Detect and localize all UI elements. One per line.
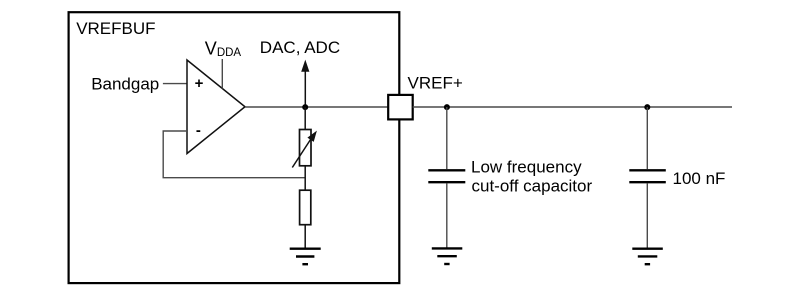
wire op-amp output to VREF+ pin [245,106,388,108]
svg-text:Bandgap: Bandgap [91,74,159,93]
svg-text:DAC, ADC: DAC, ADC [260,38,340,57]
VREF+ label [408,74,463,93]
VDDA label [205,38,242,59]
100 nF label [673,169,726,188]
potentiometer (trimming resistor) [292,130,317,168]
wire potentiometer to resistor [304,166,306,190]
capacitor C2 (100 nF) [629,170,666,182]
op-amp - input label [196,122,201,139]
feedback wire from - input to resistor divider node [163,131,305,178]
wire node to capacitor C1 [446,107,448,169]
wire node to potentiometer [304,107,306,130]
wire capacitor C2 to ground [646,183,648,248]
svg-text:100 nF: 100 nF [673,169,726,188]
wire VDDA to op-amp top [221,59,223,89]
junction node at C2 [644,104,650,110]
VREFBUF label [76,19,155,38]
junction node at C1 [444,104,450,110]
wire Bandgap to op-amp + input [163,83,187,85]
wire resistor to ground [304,225,306,249]
Bandgap label [91,74,159,93]
op-amp + input label [195,75,204,92]
ground (C2) [632,249,663,265]
resistor [300,190,311,225]
svg-text:-: - [196,122,201,139]
svg-text:VREF+: VREF+ [408,74,463,93]
VREF+ pin square [388,95,413,120]
arrow to DAC, ADC [301,60,309,107]
wire capacitor C1 to ground [446,183,448,248]
svg-text:cut-off capacitor: cut-off capacitor [472,176,593,195]
capacitor C1 (low frequency cut-off) [428,170,465,182]
external wire VREF+ to capacitors [413,106,732,108]
ground (resistor divider) [290,249,321,265]
Low frequency cut-off capacitor label [471,157,592,195]
wire node to capacitor C2 [646,107,648,169]
svg-text:VREFBUF: VREFBUF [76,19,155,38]
DAC, ADC label [260,38,340,57]
svg-text:+: + [195,75,204,92]
junction node at op-amp output [302,104,308,110]
op-amp U1 [187,60,245,154]
VREFBUF block outline [69,12,400,283]
svg-text:Low frequency: Low frequency [471,157,582,176]
ground (C1) [432,248,463,264]
